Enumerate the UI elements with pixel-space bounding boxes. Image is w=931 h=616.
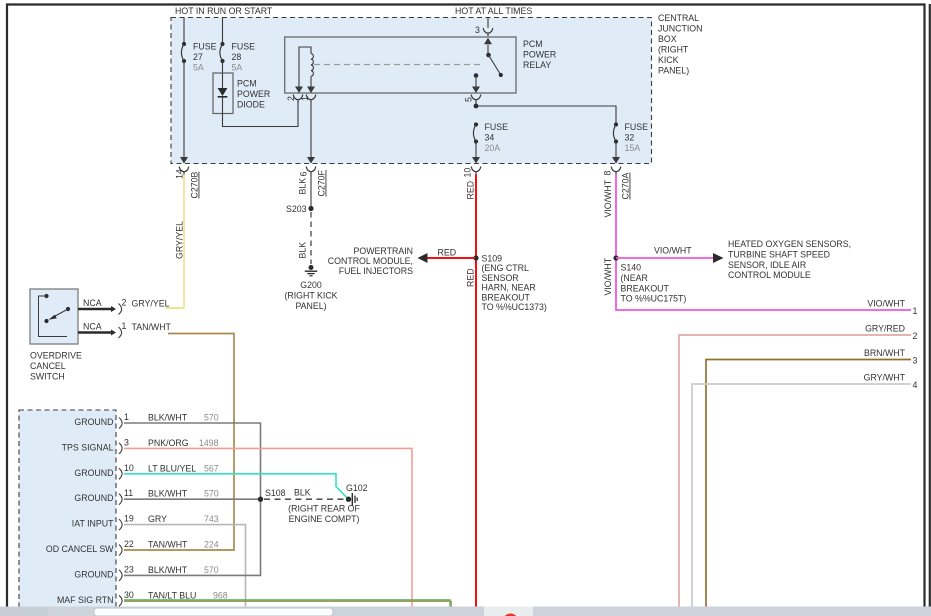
pin 30 MAF SIG RTN TAN/LT BLU (119, 595, 122, 606)
svg-text:G200: G200 (300, 280, 322, 290)
wire GRY/YEL pin14 (166, 175, 185, 309)
wire GRY/RED lead 2 (679, 335, 911, 607)
svg-text:S140: S140 (621, 263, 642, 273)
fuse F32 (613, 122, 618, 143)
svg-text:TAN/WHT: TAN/WHT (132, 322, 172, 332)
svg-text:HEATED OXYGEN SENSORS,: HEATED OXYGEN SENSORS, (728, 239, 851, 249)
svg-text:OVERDRIVE: OVERDRIVE (30, 351, 82, 361)
wire relay pin1 to C270F exit (310, 103, 312, 158)
svg-text:NCA: NCA (83, 298, 102, 308)
svg-text:5: 5 (464, 97, 474, 102)
svg-text:11: 11 (124, 488, 133, 498)
wire BLK/WHT pin23 to S108 (124, 499, 261, 575)
wire TAN/WHT to pin 22 (124, 334, 234, 551)
wire VIO/WHT branch to sensors (616, 257, 713, 259)
svg-text:570: 570 (204, 565, 219, 575)
wire fuse27 to pin14 exit (183, 61, 185, 157)
svg-text:BLK/WHT: BLK/WHT (148, 413, 188, 423)
svg-text:3: 3 (475, 25, 480, 35)
pin 3 TPS SIGNAL PNK/ORG (119, 443, 122, 454)
svg-text:FUSE: FUSE (193, 42, 217, 52)
svg-text:1: 1 (300, 96, 310, 101)
svg-text:MAF SIG RTN: MAF SIG RTN (57, 595, 114, 605)
fuse F27 (181, 42, 186, 63)
svg-text:GROUND: GROUND (74, 468, 113, 478)
svg-text:TPS SIGNAL: TPS SIGNAL (62, 442, 114, 452)
svg-text:3: 3 (124, 437, 129, 447)
wire BLK pin6 to S203 (310, 175, 312, 209)
svg-text:567: 567 (204, 463, 219, 473)
svg-text:C270A: C270A (621, 172, 631, 199)
connector C270F pin 6 (306, 167, 316, 175)
svg-text:KICK: KICK (658, 55, 679, 65)
wire fuse27 feed (183, 18, 185, 45)
svg-text:VIO/WHT: VIO/WHT (654, 246, 692, 256)
wire BLK S108 to G102 (264, 498, 344, 500)
svg-text:28: 28 (232, 52, 242, 62)
svg-text:5A: 5A (193, 63, 204, 73)
svg-text:POWERTRAIN: POWERTRAIN (354, 246, 413, 256)
pin 10 GROUND LT BLU/YEL (119, 468, 122, 479)
svg-text:BLK/WHT: BLK/WHT (148, 565, 188, 575)
pin 1 GROUND BLK/WHT (119, 418, 122, 429)
svg-text:SWITCH: SWITCH (30, 372, 65, 382)
svg-text:GRY/RED: GRY/RED (865, 324, 905, 334)
svg-text:6: 6 (299, 172, 309, 177)
svg-text:GRY/YEL: GRY/YEL (132, 299, 170, 309)
wire RED main feed (475, 175, 477, 607)
relay switch (486, 53, 491, 58)
wire VIO/WHT pin8 (616, 175, 911, 311)
PCM connector box (19, 410, 116, 616)
svg-text:GROUND: GROUND (74, 417, 113, 427)
wire fuse28 feed (222, 18, 224, 45)
svg-text:14: 14 (175, 169, 185, 179)
svg-text:(NEAR: (NEAR (621, 273, 648, 283)
svg-text:22: 22 (124, 539, 134, 549)
svg-text:TO %%UC175T): TO %%UC175T) (621, 294, 687, 304)
relay pin 1 connector (306, 95, 316, 103)
pin 19 IAT INPUT GRY (119, 519, 122, 530)
svg-text:(RIGHT REAR OF: (RIGHT REAR OF (288, 504, 360, 514)
relay pin 5 connector (471, 95, 481, 103)
svg-text:10: 10 (463, 168, 473, 178)
connector pin 1 NCA TAN/WHT (78, 331, 111, 334)
svg-text:4: 4 (913, 380, 918, 390)
svg-text:PCM: PCM (523, 39, 543, 49)
svg-text:CANCEL: CANCEL (30, 361, 66, 371)
svg-text:743: 743 (204, 514, 219, 524)
svg-text:TO %%UC1373): TO %%UC1373) (482, 302, 547, 312)
svg-text:2: 2 (913, 331, 918, 341)
splice S140 (613, 255, 618, 260)
connector pin 10 (471, 167, 481, 175)
relay mechanical link (314, 64, 483, 66)
wire GRY (124, 525, 246, 607)
wire PNK/ORG (124, 448, 412, 606)
svg-text:G102: G102 (346, 483, 368, 493)
svg-text:8: 8 (603, 171, 613, 176)
svg-text:CENTRAL: CENTRAL (658, 13, 699, 23)
wire junction to fuse 32 (476, 106, 616, 125)
svg-text:1: 1 (913, 306, 918, 316)
svg-text:570: 570 (204, 413, 219, 423)
svg-text:2: 2 (286, 96, 296, 101)
svg-text:FUSE: FUSE (625, 122, 649, 132)
svg-text:BLK/WHT: BLK/WHT (148, 489, 188, 499)
wire BLK/WHT pin1 to S108 (124, 423, 261, 499)
svg-text:JUNCTION: JUNCTION (658, 24, 702, 34)
svg-text:GROUND: GROUND (74, 569, 113, 579)
svg-text:SENSOR, IDLE AIR: SENSOR, IDLE AIR (728, 260, 806, 270)
svg-text:GRY/YEL: GRY/YEL (175, 221, 185, 259)
svg-text:HOT IN RUN OR START: HOT IN RUN OR START (175, 6, 273, 16)
relay pin 3 (487, 18, 489, 29)
svg-text:5A: 5A (232, 63, 243, 73)
wire LT BLU/YEL to G102 (124, 474, 349, 499)
svg-text:15A: 15A (625, 143, 641, 153)
svg-text:RED: RED (438, 248, 457, 258)
svg-text:DIODE: DIODE (237, 100, 265, 110)
svg-text:(RIGHT: (RIGHT (658, 45, 689, 55)
svg-text:TAN/WHT: TAN/WHT (148, 540, 188, 550)
svg-text:30: 30 (124, 590, 134, 600)
wire fuse28 to diode (222, 61, 224, 73)
ground G200 (309, 265, 314, 270)
wire BRN/WHT lead 3 (706, 360, 911, 607)
svg-text:S203: S203 (286, 204, 307, 214)
svg-text:224: 224 (204, 540, 219, 550)
svg-text:GRY/WHT: GRY/WHT (864, 373, 906, 383)
svg-text:NCA: NCA (83, 322, 102, 332)
bottom toolbar (0, 607, 931, 616)
svg-text:TAN/LT BLU: TAN/LT BLU (148, 590, 196, 600)
svg-text:OD CANCEL SW: OD CANCEL SW (46, 544, 114, 554)
wire RED branch to powertrain control module (427, 257, 475, 259)
svg-text:BLK: BLK (298, 242, 308, 259)
node fuse feed junction (474, 104, 479, 109)
fuse F28 (220, 42, 225, 63)
svg-text:BRN/WHT: BRN/WHT (864, 348, 906, 358)
svg-text:2: 2 (122, 298, 127, 308)
svg-text:BLK: BLK (294, 488, 311, 498)
connector pin 2 NCA GRY/YEL (78, 308, 111, 311)
svg-text:IAT INPUT: IAT INPUT (72, 519, 114, 529)
pin 11 GROUND BLK/WHT (119, 494, 122, 505)
wire TAN/LT BLU (124, 600, 450, 607)
svg-text:SENSOR: SENSOR (482, 273, 519, 283)
wire GRY/WHT lead 4 (692, 384, 911, 607)
wire BLK S203 to G200 (310, 212, 312, 264)
svg-text:(RIGHT KICK: (RIGHT KICK (284, 291, 337, 301)
svg-text:FUEL INJECTORS: FUEL INJECTORS (339, 266, 413, 276)
svg-text:20A: 20A (485, 143, 501, 153)
svg-text:BREAKOUT: BREAKOUT (482, 292, 531, 302)
svg-text:POWER: POWER (523, 50, 556, 60)
svg-text:BOX: BOX (658, 34, 677, 44)
svg-text:RELAY: RELAY (523, 60, 551, 70)
pin 23 GROUND BLK/WHT (119, 570, 122, 581)
svg-text:1498: 1498 (199, 438, 219, 448)
svg-text:POWER: POWER (237, 89, 270, 99)
svg-text:32: 32 (625, 133, 635, 143)
svg-text:LT BLU/YEL: LT BLU/YEL (148, 463, 196, 473)
svg-text:3: 3 (913, 356, 918, 366)
svg-text:C270B: C270B (190, 171, 200, 198)
diode PCM power diode (213, 73, 233, 114)
svg-text:FUSE: FUSE (485, 122, 509, 132)
svg-text:C270F: C270F (317, 169, 327, 196)
svg-text:PCM: PCM (237, 79, 257, 89)
svg-text:TURBINE SHAFT SPEED: TURBINE SHAFT SPEED (728, 249, 830, 259)
svg-text:1: 1 (122, 321, 127, 331)
ground G102 (346, 497, 351, 502)
svg-text:RED: RED (466, 181, 476, 200)
svg-text:FUSE: FUSE (232, 42, 256, 52)
splice S109 (473, 255, 478, 260)
svg-text:(ENG CTRL: (ENG CTRL (482, 263, 530, 273)
svg-text:10: 10 (124, 463, 134, 473)
svg-text:1: 1 (124, 412, 129, 422)
svg-text:ENGINE COMPT): ENGINE COMPT) (289, 514, 360, 524)
wire BLK/WHT pin11 to S108 (124, 498, 261, 500)
svg-text:BREAKOUT: BREAKOUT (621, 283, 670, 293)
connector C270B pin 14 (179, 167, 189, 175)
svg-text:HOT AT ALL TIMES: HOT AT ALL TIMES (455, 6, 532, 16)
svg-text:CONTROL MODULE: CONTROL MODULE (728, 270, 811, 280)
svg-text:VIO/WHT: VIO/WHT (603, 257, 613, 295)
svg-text:HARN, NEAR: HARN, NEAR (482, 283, 536, 293)
svg-text:VIO/WHT: VIO/WHT (867, 299, 905, 309)
svg-text:S109: S109 (482, 254, 503, 264)
svg-text:S108: S108 (265, 488, 286, 498)
overdrive cancel switch (30, 289, 78, 344)
svg-text:BLK: BLK (298, 178, 308, 195)
svg-text:VIO/WHT: VIO/WHT (603, 179, 613, 217)
splice S108 (258, 497, 263, 502)
wire diode to relay coil pin 2 (223, 101, 299, 127)
svg-text:GROUND: GROUND (74, 493, 113, 503)
svg-text:19: 19 (124, 514, 134, 524)
connector C270A pin 8 (611, 167, 621, 175)
svg-text:GRY: GRY (148, 514, 167, 524)
svg-text:34: 34 (485, 133, 495, 143)
splice S203 (308, 206, 313, 211)
svg-text:27: 27 (193, 52, 203, 62)
svg-text:23: 23 (124, 564, 134, 574)
svg-text:PNK/ORG: PNK/ORG (148, 438, 189, 448)
relay PCM power relay (285, 37, 516, 93)
fuse F34 (473, 122, 478, 143)
svg-text:570: 570 (204, 489, 219, 499)
relay coil (299, 47, 311, 88)
pin 22 OD CANCEL SW TAN/WHT (119, 545, 122, 556)
svg-text:PANEL): PANEL) (295, 301, 326, 311)
central junction box (171, 18, 652, 164)
relay pin 2 connector (293, 95, 303, 103)
svg-text:968: 968 (213, 590, 228, 600)
svg-text:RED: RED (466, 268, 476, 287)
svg-text:PANEL): PANEL) (658, 66, 689, 76)
svg-text:CONTROL MODULE,: CONTROL MODULE, (328, 256, 413, 266)
